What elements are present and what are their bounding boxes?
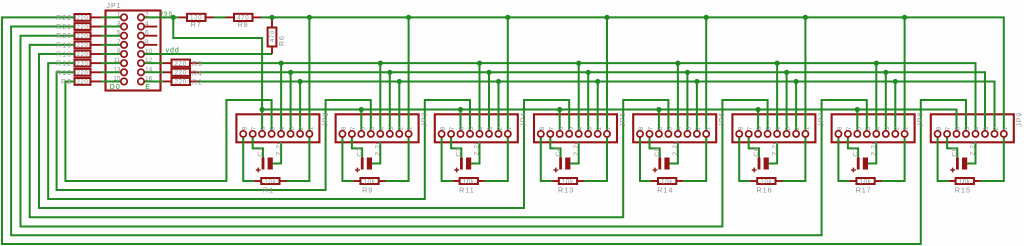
svg-text:R9: R9 xyxy=(362,185,373,194)
svg-text:R15: R15 xyxy=(955,185,971,194)
svg-text:JP4: JP4 xyxy=(521,112,528,127)
svg-text:220: 220 xyxy=(175,61,187,67)
svg-text:JP3: JP3 xyxy=(422,112,429,127)
svg-text:2.2µ: 2.2µ xyxy=(672,140,679,156)
svg-text:5: 5 xyxy=(117,30,121,37)
svg-text:JP2: JP2 xyxy=(322,112,329,127)
svg-text:R11: R11 xyxy=(459,185,475,194)
svg-text:R10: R10 xyxy=(56,70,72,77)
svg-text:8: 8 xyxy=(145,39,149,46)
svg-text:2.2µ: 2.2µ xyxy=(375,140,382,156)
svg-text:C1: C1 xyxy=(257,146,264,156)
svg-text:2.2µ: 2.2µ xyxy=(275,140,282,156)
svg-text:C4: C4 xyxy=(555,146,562,156)
svg-text:2.2µ: 2.2µ xyxy=(771,140,778,156)
svg-text:vdd: vdd xyxy=(166,48,180,55)
svg-text:15: 15 xyxy=(113,75,121,82)
svg-text:C5: C5 xyxy=(654,146,661,156)
svg-text:C7: C7 xyxy=(852,146,859,156)
svg-text:vss: vss xyxy=(160,11,174,18)
svg-text:6: 6 xyxy=(145,30,149,37)
svg-text:C2: C2 xyxy=(356,146,363,156)
svg-text:JP8: JP8 xyxy=(918,112,925,127)
svg-text:R6: R6 xyxy=(279,35,286,46)
svg-text:R7: R7 xyxy=(191,22,202,29)
svg-text:7: 7 xyxy=(117,39,121,46)
svg-text:14: 14 xyxy=(145,66,153,73)
svg-text:470: 470 xyxy=(237,16,249,22)
svg-text:2.2µ: 2.2µ xyxy=(573,140,580,156)
svg-text:470: 470 xyxy=(270,30,276,42)
svg-text:R4: R4 xyxy=(192,70,203,77)
svg-text:16: 16 xyxy=(145,75,153,82)
svg-text:220: 220 xyxy=(76,43,88,49)
svg-text:2: 2 xyxy=(145,11,149,18)
svg-text:2.2µ: 2.2µ xyxy=(474,140,481,156)
svg-text:R14: R14 xyxy=(657,185,673,194)
svg-text:R17: R17 xyxy=(856,185,872,194)
svg-text:10: 10 xyxy=(145,48,153,55)
svg-text:R12: R12 xyxy=(56,61,72,68)
svg-text:C3: C3 xyxy=(456,146,463,156)
svg-text:R21: R21 xyxy=(56,24,72,31)
svg-text:C8: C8 xyxy=(952,146,959,156)
svg-text:4: 4 xyxy=(145,21,149,28)
svg-text:220: 220 xyxy=(76,61,88,67)
svg-text:R16: R16 xyxy=(756,185,772,194)
svg-text:3: 3 xyxy=(117,21,121,28)
svg-text:12: 12 xyxy=(145,57,153,64)
svg-text:220: 220 xyxy=(76,34,88,40)
svg-text:1: 1 xyxy=(117,11,121,18)
svg-text:JP9: JP9 xyxy=(1017,112,1024,127)
svg-text:220: 220 xyxy=(175,71,187,77)
svg-text:2.2µ: 2.2µ xyxy=(970,140,977,156)
svg-text:R22: R22 xyxy=(56,15,72,22)
svg-text:R19: R19 xyxy=(56,42,72,49)
svg-text:11: 11 xyxy=(114,57,121,64)
svg-text:JP5: JP5 xyxy=(620,112,627,127)
svg-text:JP1: JP1 xyxy=(107,3,122,10)
svg-text:R2: R2 xyxy=(192,79,203,86)
svg-text:E: E xyxy=(145,84,150,91)
svg-text:2.2µ: 2.2µ xyxy=(871,140,878,156)
svg-text:R1: R1 xyxy=(263,185,274,194)
svg-text:R13: R13 xyxy=(558,185,574,194)
svg-text:R5: R5 xyxy=(192,61,203,68)
svg-text:C6: C6 xyxy=(753,146,760,156)
svg-text:220: 220 xyxy=(76,25,88,31)
svg-text:13: 13 xyxy=(113,66,121,73)
svg-text:220: 220 xyxy=(76,52,88,58)
svg-text:220: 220 xyxy=(76,16,88,22)
svg-text:R8: R8 xyxy=(238,22,249,29)
svg-text:D0: D0 xyxy=(110,84,121,91)
svg-text:R18: R18 xyxy=(56,52,72,59)
svg-text:R20: R20 xyxy=(56,33,72,40)
svg-text:9: 9 xyxy=(117,48,121,55)
svg-text:JP6: JP6 xyxy=(719,112,726,127)
svg-text:220: 220 xyxy=(76,80,88,86)
svg-text:120: 120 xyxy=(190,16,202,22)
svg-text:R3: R3 xyxy=(61,79,72,86)
svg-text:JP7: JP7 xyxy=(818,112,825,127)
svg-text:220: 220 xyxy=(175,80,187,86)
svg-text:220: 220 xyxy=(76,71,88,77)
